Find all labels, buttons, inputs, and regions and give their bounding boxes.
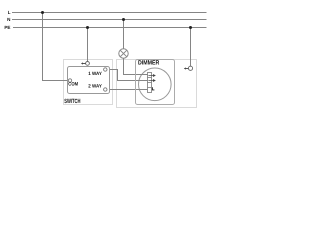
svg-text:DIMMER: DIMMER [138,60,160,67]
svg-text:1 WAY: 1 WAY [88,71,102,77]
svg-text:COM: COM [68,81,78,87]
svg-text:2 WAY: 2 WAY [88,83,102,89]
svg-text:SWITCH: SWITCH [64,98,80,105]
svg-text:PE: PE [4,25,10,30]
svg-text:L: L [8,10,11,15]
